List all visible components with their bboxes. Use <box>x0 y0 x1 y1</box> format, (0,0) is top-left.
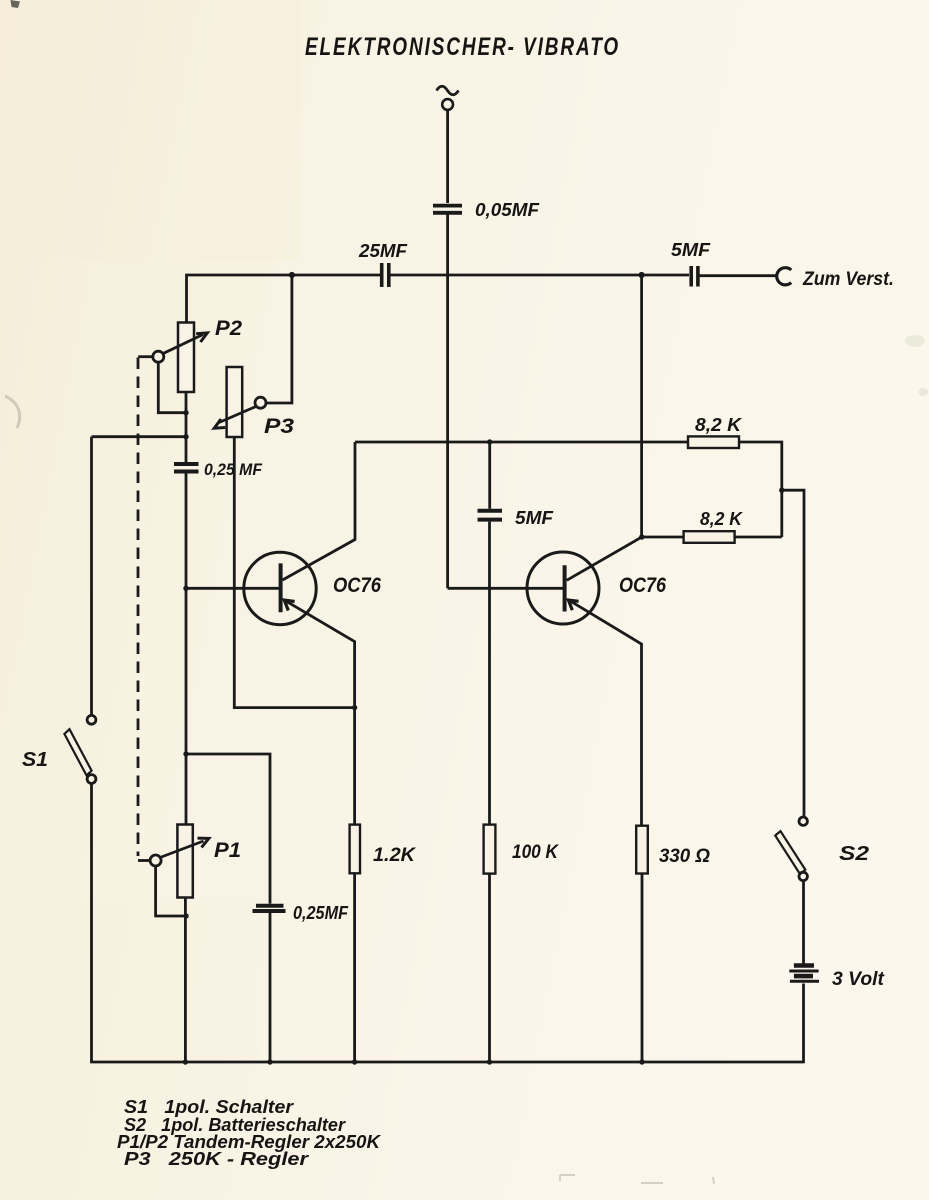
capacitor 0,25MF (upper) <box>174 464 199 472</box>
wire top bus middle segment <box>391 274 690 277</box>
wire S1 vertical feed <box>90 437 93 715</box>
wire 8.2K lower left lead <box>642 536 684 539</box>
wire branch to 0,25MF lower <box>186 754 270 904</box>
resistor R 1.2K body <box>350 825 360 874</box>
wire input vertical to C 0.05MF <box>446 110 449 203</box>
wire 5MF lower lead to R 100K <box>488 522 491 825</box>
wire top bus left segment <box>187 274 381 277</box>
wire bottom bus <box>90 1061 803 1064</box>
wire S2 to battery <box>802 881 805 964</box>
wire P1 wiper tie-down <box>156 866 186 916</box>
wire bus junction down to Q2 collector node <box>640 275 643 537</box>
wire Q1 emitter diagonal and down <box>285 600 355 707</box>
resistor R 330 body <box>636 826 648 874</box>
wire P3 feed from bus <box>266 275 292 403</box>
potentiometer P2 body <box>178 323 194 393</box>
junction node Q1 base <box>183 586 188 591</box>
wire left vertical P2 bottom through caps to P1 <box>185 392 188 462</box>
resistor R 8.2K upper body <box>688 436 739 448</box>
wire Q1 collector up to 442-line <box>283 442 356 580</box>
Q1 emitter arrowhead <box>284 600 294 610</box>
wire down to R 1.2K <box>353 708 356 825</box>
svg-text:OC76: OC76 <box>333 574 381 597</box>
wire 442-line (Q1 collector rail) <box>355 441 688 444</box>
switch S1 <box>64 715 96 783</box>
svg-text:S1 1pol. Schalter: S1 1pol. Schalter <box>124 1097 294 1117</box>
switch S2 <box>775 817 807 881</box>
resistor R 8.2K lower body <box>684 531 735 543</box>
input terminal (AC symbol) <box>437 86 459 110</box>
battery 3 Volt <box>789 966 819 982</box>
capacitor 25MF (in bus) <box>382 263 389 287</box>
capacitor 0,25MF (lower) <box>253 906 286 911</box>
wire Q2 collector diagonal <box>567 537 642 580</box>
potentiometer P1 body <box>177 825 192 898</box>
svg-text:P1: P1 <box>214 839 241 862</box>
svg-text:3 Volt: 3 Volt <box>832 969 885 990</box>
svg-text:330 Ω: 330 Ω <box>659 846 710 867</box>
transistor Q1 OC76 circle <box>244 552 316 624</box>
wire P2 wiper to dashed link <box>138 355 152 358</box>
junction node Q2 collector <box>639 534 644 539</box>
svg-text:Zum Verst.: Zum Verst. <box>802 269 894 290</box>
capacitor 5MF (vertical, emitter bypass) <box>478 511 503 520</box>
Q2 emitter arrowhead <box>568 600 578 610</box>
svg-text:S2: S2 <box>839 843 869 865</box>
wire Q1 base from divider <box>186 587 280 590</box>
wire Q2 emitter diagonal and down <box>569 600 642 826</box>
wire branch to S2 <box>782 490 804 817</box>
transistor Q2 base bar <box>563 565 567 611</box>
wire R 330 to bottom bus <box>641 874 644 1063</box>
potentiometer P2 wiper arrow <box>153 333 208 362</box>
dashed gang link P2-P1 <box>138 358 151 861</box>
wire bus left corner down to P2 <box>185 274 188 323</box>
capacitor 0,05MF <box>433 206 462 213</box>
wire P3 bottom to Q1 emitter node <box>234 437 354 708</box>
wire bus to output connector <box>700 274 778 277</box>
potentiometer P3 wiper arrow <box>214 397 266 428</box>
wire horizontal branch to S1 <box>92 435 187 438</box>
junction node to S1 branch <box>183 434 188 439</box>
output connector (open circle to amplifier) <box>777 268 791 285</box>
transistor Q2 OC76 circle <box>527 552 599 624</box>
wire 8.2K upper right lead and corner <box>739 442 782 537</box>
svg-text:P3 250K - Regler: P3 250K - Regler <box>124 1149 309 1169</box>
junction dot on top bus (output tap) <box>639 272 645 278</box>
junction dot on top bus for P3 <box>289 272 295 278</box>
wire P1 bottom to bus <box>184 898 187 1063</box>
svg-text:P2: P2 <box>215 317 242 340</box>
svg-text:0,25 MF: 0,25 MF <box>204 460 263 479</box>
wire 0,25MF lower lead to bus <box>269 913 272 1062</box>
svg-text:25MF: 25MF <box>358 241 408 261</box>
svg-text:5MF: 5MF <box>515 508 554 528</box>
junction node 5MF tap <box>487 439 492 444</box>
wire R 100K to bottom bus <box>488 874 491 1062</box>
wire R 1.2K to bottom bus <box>353 873 356 1062</box>
svg-text:ELEKTRONISCHER- VIBRATO: ELEKTRONISCHER- VIBRATO <box>305 33 620 61</box>
svg-text:S1: S1 <box>22 749 48 771</box>
wire 8.2K lower right lead <box>735 536 782 539</box>
potentiometer P1 wiper arrow <box>150 838 209 866</box>
junction dots bottom bus <box>183 1059 188 1064</box>
junction node at P2 bottom <box>183 410 188 415</box>
wire S1 down to bottom bus <box>90 783 93 1063</box>
junction node P1 bottom <box>183 913 188 918</box>
svg-text:100 K: 100 K <box>512 842 559 863</box>
wire Q2 base horizontal <box>448 587 564 590</box>
transistor Q1 base bar <box>279 563 283 612</box>
svg-text:8,2 K: 8,2 K <box>700 509 744 529</box>
junction node emitter Q1 / P3 <box>352 705 357 710</box>
wire from 0.05MF down to Q2 base (crosses bus and 442-line) <box>446 215 449 589</box>
potentiometer P3 body <box>227 367 243 437</box>
wire 5MF vertical upper lead <box>488 442 491 509</box>
svg-text:0,05MF: 0,05MF <box>475 200 540 220</box>
junction node battery rail <box>779 488 784 493</box>
resistor R 100K body <box>484 825 496 874</box>
svg-text:5MF: 5MF <box>671 240 711 260</box>
svg-text:OC76: OC76 <box>619 574 666 597</box>
svg-text:P3: P3 <box>264 415 294 438</box>
svg-text:0,25MF: 0,25MF <box>293 903 349 923</box>
junction node bias branch <box>183 751 188 756</box>
wire battery to bottom bus corner <box>802 984 805 1064</box>
svg-text:1.2K: 1.2K <box>373 845 416 866</box>
svg-text:8,2 K: 8,2 K <box>695 415 743 435</box>
wire P2 wiper tie-down to divider node <box>158 362 186 412</box>
capacitor 5MF (output coupling) <box>691 266 698 287</box>
